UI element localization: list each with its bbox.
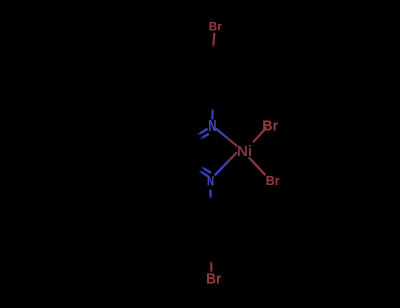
bond C=N2 main line xyxy=(196,168,209,176)
bond N1-C(aryl ipso top) xyxy=(211,103,214,119)
svg-text:N: N xyxy=(207,173,214,188)
bond Ni-Br(top right) xyxy=(253,127,267,142)
bond C=N2 second line xyxy=(198,165,211,173)
bond C=N1 second line xyxy=(196,134,209,142)
bond N2-Ni xyxy=(215,152,237,175)
svg-text:Ni: Ni xyxy=(237,143,252,160)
bond C=N1 main line xyxy=(194,129,208,137)
svg-text:N: N xyxy=(208,118,216,135)
bond C-Br(bottom) xyxy=(210,253,213,272)
svg-text:Br: Br xyxy=(266,173,280,188)
svg-text:Br: Br xyxy=(262,118,278,134)
svg-text:Br: Br xyxy=(209,19,222,33)
svg-text:Br: Br xyxy=(206,271,221,288)
bond Br(top)-C aryl para xyxy=(212,33,214,58)
bond N2-C(aryl ipso bottom) xyxy=(209,190,212,205)
bond Ni-Br(bottom right) xyxy=(249,157,266,175)
bond N1-Ni xyxy=(216,129,238,147)
